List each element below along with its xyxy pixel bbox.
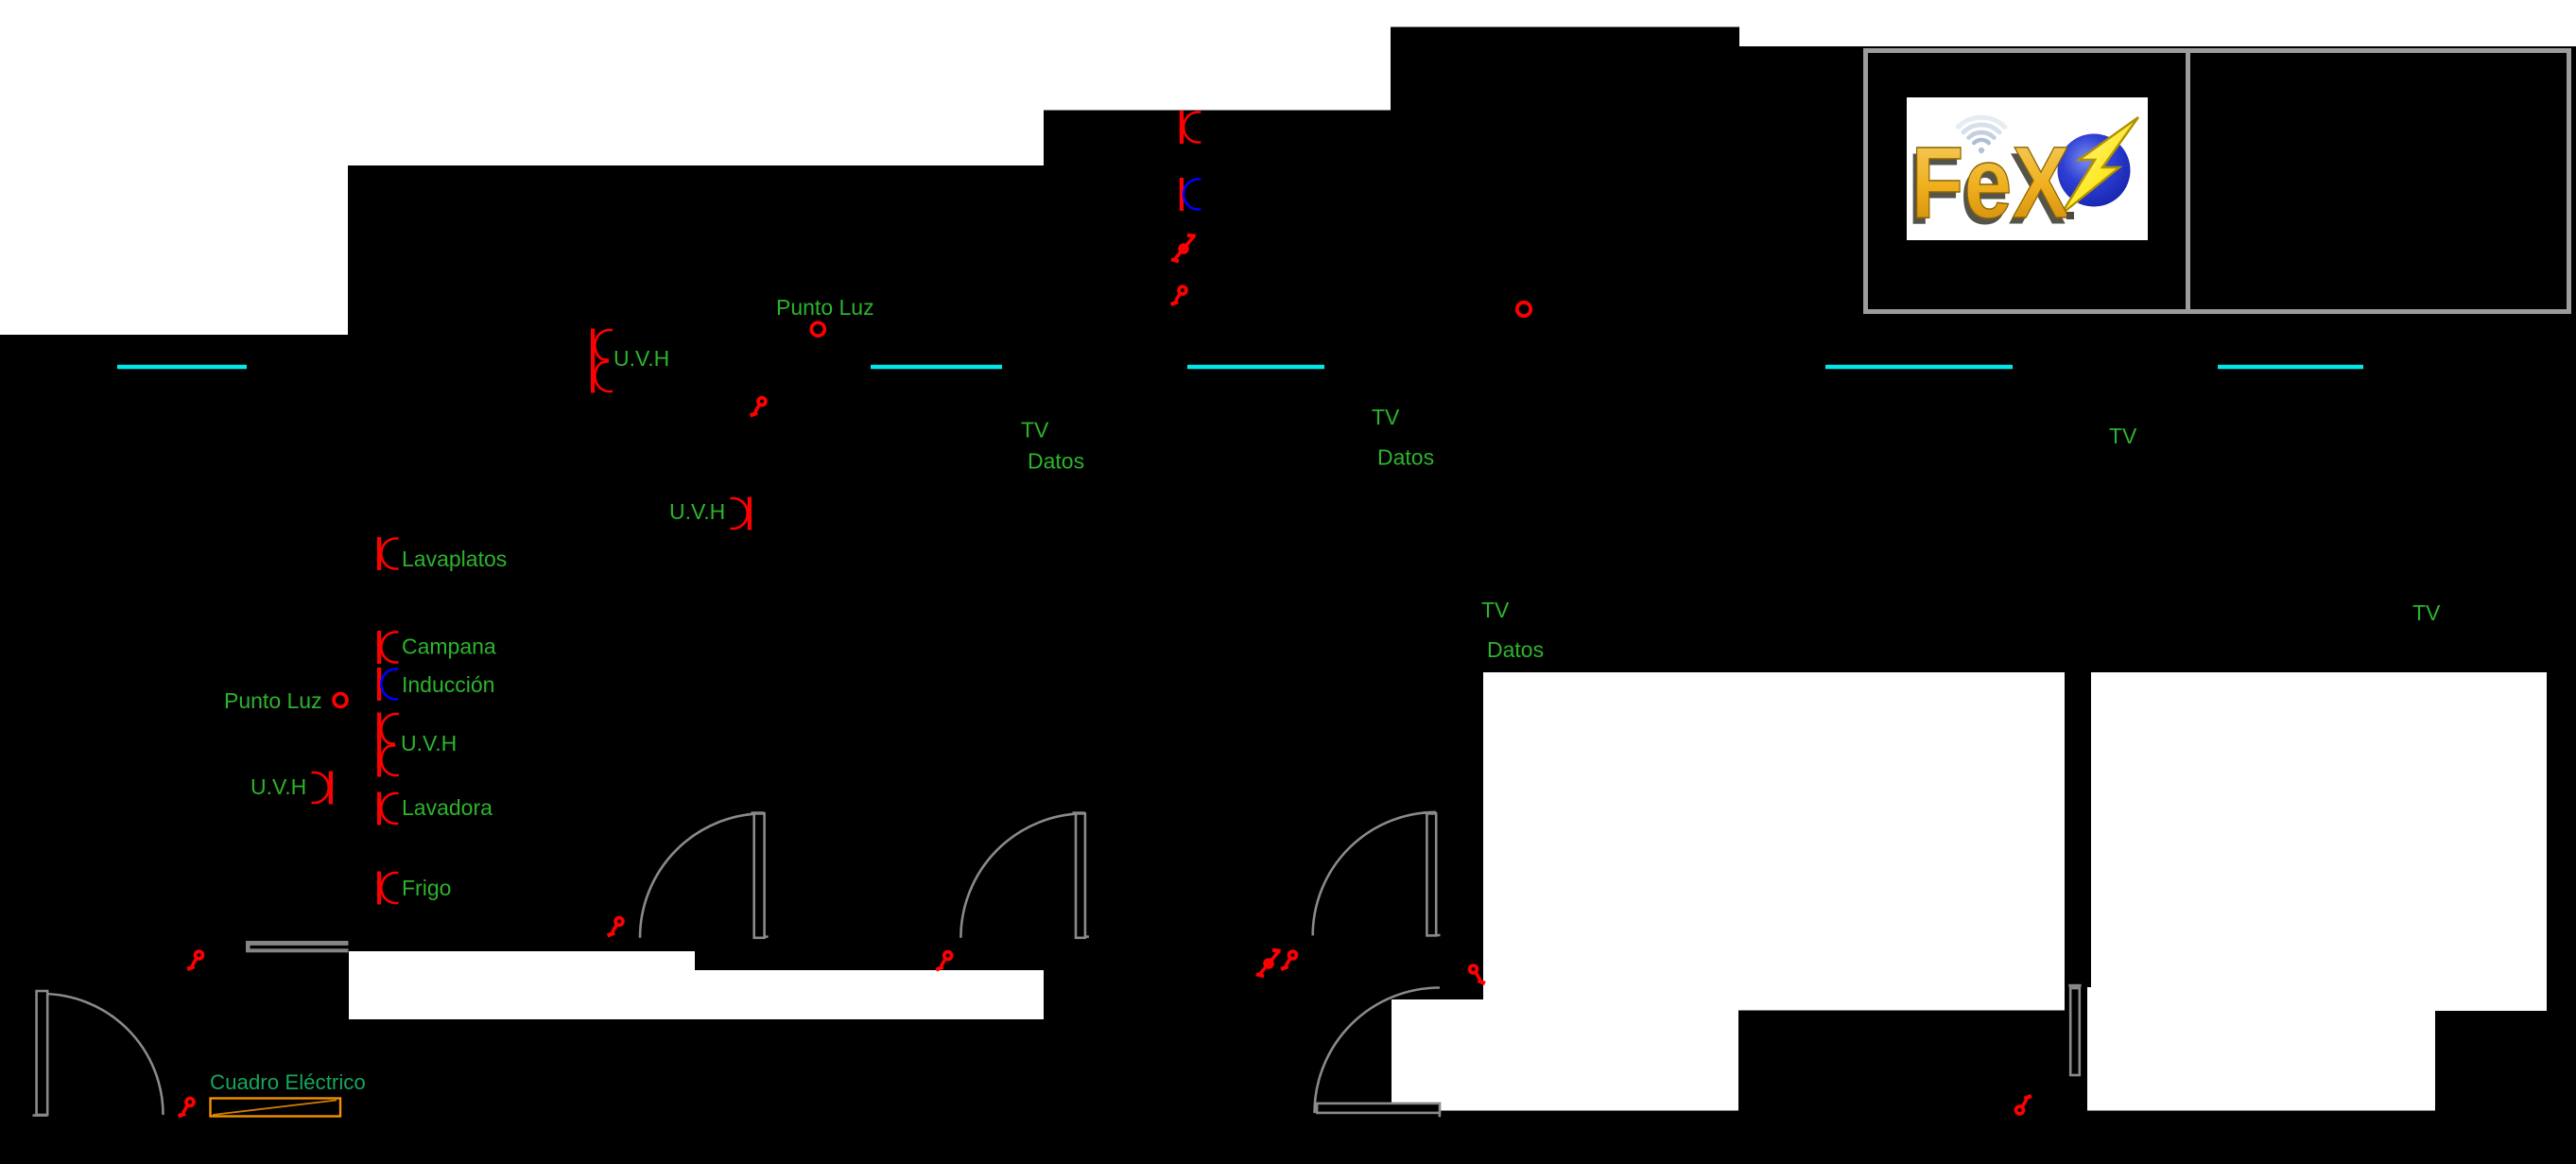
svg-text:Punto Luz: Punto Luz xyxy=(224,688,322,713)
switch S6 (cuadro electrico) xyxy=(179,1099,194,1117)
socket: upper U.V.H double xyxy=(591,329,613,393)
room area white W3 xyxy=(1044,0,1391,111)
svg-text:TV: TV xyxy=(2412,600,2441,625)
socket: top column lower (blue arc) xyxy=(1180,178,1202,211)
door D5 (bottom, horizontal leaf) xyxy=(1313,988,1440,1118)
svg-text:Lavadora: Lavadora xyxy=(402,795,493,820)
socket: Induccion (blue) xyxy=(377,668,399,701)
switch S3 (door D2) xyxy=(608,918,623,936)
light point (hall) xyxy=(1517,303,1530,316)
svg-text:Datos: Datos xyxy=(1487,637,1544,662)
legend box (top-right) xyxy=(1866,48,2569,314)
light point: Punto Luz (kitchen) xyxy=(334,694,347,707)
light point: Punto Luz (upper) xyxy=(811,322,824,336)
room area white W5 (top-right strip) xyxy=(1739,0,2576,46)
svg-text:TV: TV xyxy=(1481,598,1510,622)
socket: U.V.H mirrored (left) xyxy=(312,772,334,805)
window C5 (cyan) xyxy=(2218,365,2363,370)
room area white B (below A, left) xyxy=(1392,999,1738,1111)
room area white W1 (top-left) xyxy=(0,0,348,335)
room area white W6 (bottom-left band) xyxy=(349,951,695,1019)
svg-text:Punto Luz: Punto Luz xyxy=(776,295,874,320)
door D2 xyxy=(640,813,769,938)
svg-text:U.V.H: U.V.H xyxy=(669,499,725,524)
socket: U.V.H double (kitchen) xyxy=(377,713,399,777)
svg-text:Datos: Datos xyxy=(1028,449,1084,474)
svg-text:Cuadro Eléctrico: Cuadro Eléctrico xyxy=(210,1070,366,1094)
svg-text:TV: TV xyxy=(1021,418,1049,443)
svg-text:Lavaplatos: Lavaplatos xyxy=(402,547,507,571)
room area white A (bottom-middle room) xyxy=(1483,672,2065,1011)
door D4 xyxy=(1313,812,1441,936)
socket: top column upper (red) xyxy=(1180,111,1202,144)
FeX logo xyxy=(1907,97,2148,246)
svg-text:Campana: Campana xyxy=(402,634,496,659)
wifi arcs xyxy=(1958,117,2004,153)
switch S8 (mirrored) xyxy=(1470,965,1485,983)
door D1 (bottom-left) xyxy=(33,991,164,1116)
svg-text:Inducción: Inducción xyxy=(402,672,494,697)
socket: Frigo xyxy=(377,872,399,905)
wall segment (gray double line, kitchen) xyxy=(246,941,349,952)
switch S5 (kitchen) xyxy=(187,951,202,969)
svg-text:FeX: FeX xyxy=(1911,125,2070,239)
switch S4 (door D3) xyxy=(936,952,951,970)
window C2 (cyan) xyxy=(871,365,1002,370)
svg-text:Datos: Datos xyxy=(1377,445,1434,470)
socket: U.V.H mirrored (hall) xyxy=(731,497,752,530)
cuadro electrico box (orange) xyxy=(211,1099,341,1117)
switch S1 xyxy=(751,398,766,416)
svg-text:U.V.H: U.V.H xyxy=(401,731,457,756)
switch T2 (two-way, pair left) xyxy=(1256,950,1281,977)
switch T1 (two-way) xyxy=(1171,235,1196,262)
blue ball xyxy=(2058,134,2131,207)
room area white W2 xyxy=(348,0,1044,165)
lightning bolt xyxy=(2061,117,2138,215)
svg-text:TV: TV xyxy=(1372,405,1400,429)
svg-text:U.V.H: U.V.H xyxy=(251,774,306,799)
socket: Lavadora xyxy=(377,792,399,825)
window C3 (cyan) xyxy=(1187,365,1324,370)
switch S9 (rotated 180) xyxy=(2016,1096,2031,1114)
room area white W7 xyxy=(695,970,1044,1019)
room area white W4 (top strip) xyxy=(1391,0,1739,27)
window C4 (cyan) xyxy=(1825,365,2013,370)
svg-text:U.V.H: U.V.H xyxy=(614,346,669,371)
switch S2 xyxy=(1171,287,1186,304)
room area white C (bottom-right room) xyxy=(2087,672,2547,1111)
corridor door leaf (vertical, right) xyxy=(2068,985,2081,1075)
socket: Lavaplatos xyxy=(377,537,399,570)
svg-text:TV: TV xyxy=(2109,424,2137,448)
switch S7 (pair right) xyxy=(1281,951,1296,969)
svg-text:Frigo: Frigo xyxy=(402,876,451,900)
socket: Campana xyxy=(377,631,399,664)
window C1 (cyan) xyxy=(117,365,247,370)
door D3 xyxy=(960,813,1089,938)
